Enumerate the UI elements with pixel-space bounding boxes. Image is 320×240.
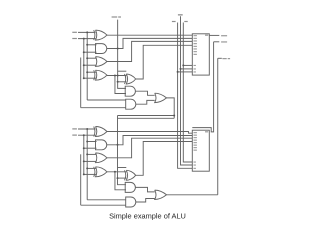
svg-text:Simple example of ALU: Simple example of ALU [109,211,186,220]
